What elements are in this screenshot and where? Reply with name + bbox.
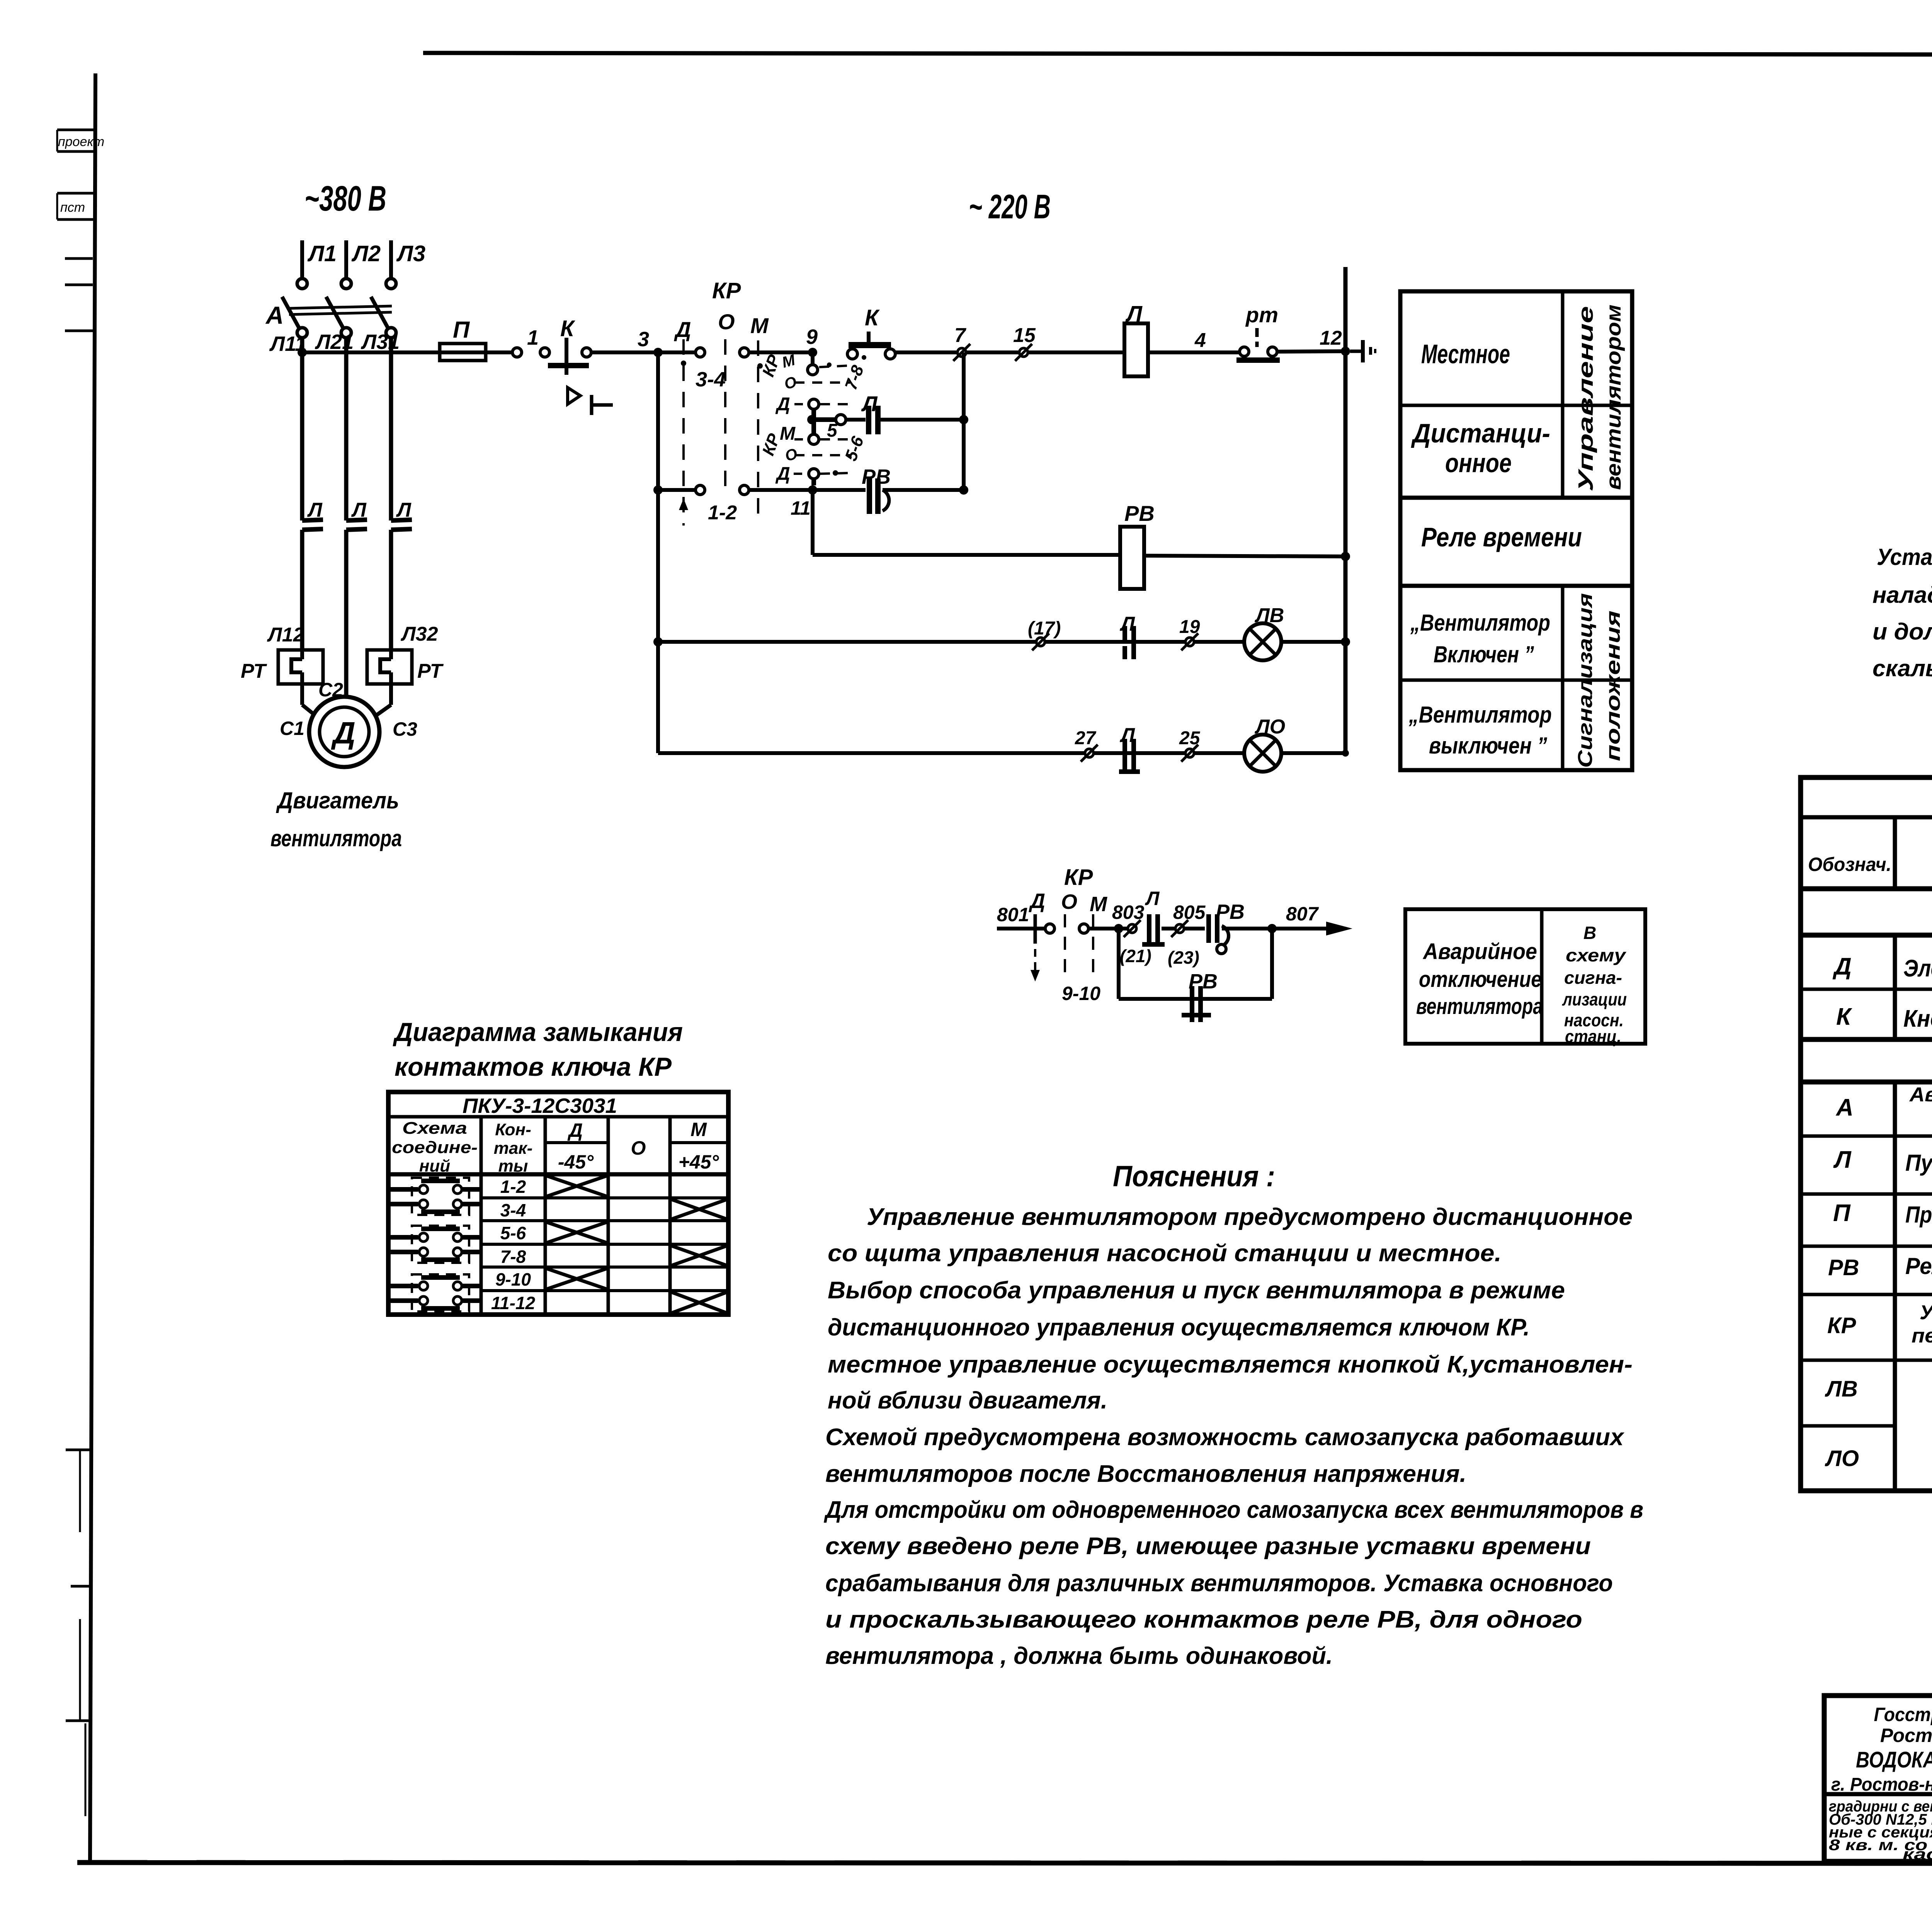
title block frame [1824, 1696, 1932, 1861]
svg-text:805: 805 [1173, 902, 1206, 923]
svg-text:С1: С1 [280, 718, 304, 739]
svg-text:К: К [1836, 1004, 1852, 1030]
svg-text:переключатель: переключатель [1912, 1325, 1932, 1347]
bypass branch with РВ NC [1117, 929, 1121, 999]
svg-text:1: 1 [527, 326, 539, 349]
svg-text:12: 12 [1320, 327, 1342, 349]
svg-text:К: К [560, 316, 575, 341]
svg-text:Л: Л [1125, 301, 1143, 327]
svg-text:А: А [1835, 1094, 1854, 1121]
svg-text:вентилятором: вентилятором [1602, 304, 1625, 490]
svg-text:М: М [1090, 893, 1107, 916]
svg-text:рт: рт [1245, 303, 1278, 327]
svg-text:Электродвигатель: Электродвигатель [1903, 955, 1932, 982]
svg-text:Ростовский: Ростовский [1880, 1725, 1932, 1746]
KP contact 1-2 branch (node 11) [658, 488, 696, 492]
svg-text:Двигатель: Двигатель [276, 788, 399, 813]
contact 3-4 gap circles [696, 348, 705, 357]
svg-text:отключение: отключение [1419, 967, 1542, 992]
svg-text:5-6: 5-6 [500, 1223, 526, 1243]
svg-text:3-4: 3-4 [500, 1200, 526, 1220]
svg-text:Управление вентилятором: Управление вентилятором предусмотрено ди… [867, 1204, 1633, 1230]
svg-text:выключен ”: выключен ” [1429, 733, 1547, 759]
svg-text:9: 9 [806, 325, 818, 349]
equipment list table [1801, 777, 1932, 1491]
svg-text:вентилятора , должна быть: вентилятора , должна быть одинаковой. [825, 1643, 1333, 1669]
svg-text:Кнопка управления: Кнопка управления [1903, 1005, 1932, 1032]
time relay coil РВ row [811, 490, 815, 555]
phase terminal Л1 [300, 240, 304, 278]
svg-text:Реле времени: Реле времени [1421, 522, 1582, 552]
svg-text:Автоматический: Автоматический [1909, 1084, 1932, 1106]
KP table X marks [547, 1176, 607, 1196]
svg-text:Д: Д [1832, 953, 1852, 980]
contactor coil Л [1124, 323, 1148, 376]
svg-text:вентилятора: вентилятора [1416, 994, 1543, 1019]
svg-text:~ 220 В: ~ 220 В [969, 187, 1051, 226]
KP contact 9-10 [1034, 914, 1037, 944]
wire marker 803 [1128, 924, 1136, 933]
svg-text:~380 В: ~380 В [304, 179, 386, 218]
svg-text:Аварийное: Аварийное [1422, 939, 1537, 964]
vertical wire from marker7 down [962, 352, 966, 490]
svg-text:контактов ключа КР: контактов ключа КР [395, 1052, 672, 1082]
svg-text:онное: онное [1445, 448, 1512, 478]
border frame left [90, 73, 95, 1863]
KP diagram table [388, 1092, 728, 1315]
svg-text:Л: Л [1833, 1146, 1852, 1173]
border frame top [423, 53, 1932, 55]
svg-text:соедине-: соедине- [392, 1138, 478, 1157]
svg-text:Д: Д [567, 1119, 583, 1141]
svg-text:„Вентилятор: „Вентилятор [1410, 610, 1550, 636]
svg-text:Дистанци-: Дистанци- [1411, 418, 1550, 448]
svg-text:7: 7 [954, 324, 966, 347]
svg-text:3: 3 [638, 328, 649, 351]
wire marker 15 [1019, 348, 1028, 357]
svg-text:В: В [1583, 923, 1596, 943]
svg-text:РТ: РТ [241, 660, 267, 682]
stop button К local [565, 338, 568, 375]
svg-text:7-8: 7-8 [500, 1247, 526, 1267]
svg-text:9-10: 9-10 [1062, 983, 1100, 1004]
phase terminal Л2 [344, 240, 348, 278]
svg-text:Уставка реле времени „1÷2-: Уставка реле времени „1÷2-РВ” уточняется… [1877, 544, 1932, 570]
svg-text:ты: ты [498, 1157, 528, 1175]
svg-text:9-10: 9-10 [495, 1269, 531, 1289]
svg-text:Л2: Л2 [351, 241, 381, 266]
KP table connection schemas [412, 1178, 469, 1215]
svg-text:19: 19 [1179, 617, 1200, 637]
svg-text:11: 11 [791, 497, 811, 519]
svg-text:Л32: Л32 [400, 623, 438, 645]
svg-text:проект: проект [58, 134, 104, 149]
svg-text:ЛО: ЛО [1254, 716, 1285, 738]
svg-text:О: О [718, 310, 735, 334]
svg-text:РТ: РТ [417, 660, 444, 682]
svg-text:Местное: Местное [1421, 339, 1510, 369]
svg-text:ЛВ: ЛВ [1254, 604, 1284, 627]
svg-text:Диаграмма замыкания: Диаграмма замыкания [393, 1017, 683, 1047]
node 3 [653, 348, 663, 357]
left margin ticks [65, 257, 93, 260]
motor Д [309, 697, 379, 767]
svg-text:11-12: 11-12 [491, 1293, 536, 1313]
svg-text:срабатывания для различных в: срабатывания для различных вентиляторов.… [825, 1570, 1613, 1597]
svg-text:Обознач.: Обознач. [1808, 854, 1891, 875]
svg-text:схему: схему [1566, 945, 1627, 965]
svg-text:РВ: РВ [1828, 1255, 1859, 1280]
svg-text:Включен ”: Включен ” [1434, 641, 1534, 667]
svg-text:ЛО: ЛО [1825, 1446, 1859, 1471]
svg-text:4: 4 [1194, 329, 1206, 352]
self-return symbol [568, 388, 580, 404]
svg-text:дистанционного управления ос: дистанционного управления осуществляется… [828, 1314, 1530, 1341]
contact Л NC in 801 row [1147, 914, 1151, 943]
wire marker 12 [1277, 351, 1345, 352]
phase drop wires with contactor main contacts Л [300, 338, 304, 520]
svg-text:(17): (17) [1028, 618, 1061, 639]
svg-text:М: М [690, 1119, 707, 1140]
svg-text:ПКУ-3-12С3031: ПКУ-3-12С3031 [463, 1094, 617, 1118]
wire to coil Л [895, 350, 1124, 354]
signal destination box [1405, 909, 1645, 1044]
svg-text:касом: касом [1903, 1846, 1932, 1863]
wire to node 3 [582, 348, 591, 357]
svg-text:местное управление осуществл: местное управление осуществляется кнопко… [828, 1351, 1633, 1378]
svg-text:К: К [865, 305, 880, 330]
start button К remote [867, 332, 871, 344]
svg-text:станц.: станц. [1565, 1026, 1621, 1046]
svg-text:Л12: Л12 [267, 624, 304, 646]
svg-text:г. Ростов-на-Дону: г. Ростов-на-Дону [1831, 1774, 1932, 1795]
svg-text:Л3: Л3 [396, 241, 425, 266]
svg-text:Сигнализация: Сигнализация [1574, 593, 1597, 768]
svg-text:С3: С3 [393, 718, 417, 740]
svg-text:так-: так- [494, 1139, 533, 1158]
svg-text:15: 15 [1013, 324, 1036, 347]
fuse П [440, 344, 486, 361]
svg-text:ЛВ: ЛВ [1825, 1376, 1858, 1402]
svg-text:5: 5 [827, 420, 838, 441]
svg-text:Универсальный: Универсальный [1920, 1301, 1932, 1324]
svg-text:ний: ний [419, 1157, 450, 1175]
svg-text:сигна-: сигна- [1564, 968, 1622, 988]
svg-text:О: О [1061, 890, 1077, 913]
svg-text:РВ: РВ [1216, 900, 1245, 924]
svg-text:А: А [265, 301, 284, 329]
svg-text:(23): (23) [1168, 947, 1199, 968]
lamp row ЛВ (fan on) [658, 640, 1244, 644]
KP contact 7-8 branch [811, 352, 815, 365]
circuit breaker A [282, 297, 301, 331]
svg-text:Схемой предусмотрена возможн: Схемой предусмотрена возможность самозап… [825, 1424, 1625, 1451]
svg-text:Схема: Схема [402, 1119, 467, 1138]
svg-text:и проскальзывающего конта: и проскальзывающего контактов реле РВ, д… [825, 1606, 1582, 1633]
svg-text:КР: КР [712, 278, 741, 303]
svg-text:наладке в зависимости от вр: наладке в зависимости от времени запуска… [1872, 582, 1932, 608]
svg-text:лизации: лизации [1562, 989, 1627, 1009]
left margin stamp boxes [57, 129, 94, 131]
svg-text:Пускатель магнитный: Пускатель магнитный [1905, 1150, 1932, 1176]
svg-text:ВОДОКАНАЛПРОЕКТ: ВОДОКАНАЛПРОЕКТ [1856, 1747, 1932, 1772]
svg-text:Кон-: Кон- [495, 1120, 531, 1139]
left drop wire from node 3 [656, 352, 660, 753]
svg-text:1-2: 1-2 [500, 1177, 526, 1197]
svg-text:М: М [750, 313, 769, 338]
contact gap 1 [512, 348, 522, 357]
svg-text:О: О [631, 1137, 646, 1159]
svg-text:со щита управления насосной: со щита управления насосной станции и ме… [828, 1240, 1502, 1267]
svg-text:Л31: Л31 [361, 330, 400, 354]
svg-text:Д: Д [775, 394, 790, 415]
svg-text:3-4: 3-4 [696, 368, 726, 391]
svg-text:Д: Д [331, 716, 355, 750]
svg-text:„Вентилятор: „Вентилятор [1408, 702, 1552, 728]
function legend table [1400, 291, 1632, 770]
svg-text:и должны быть одинаковой: и должны быть одинаковой для основного и… [1872, 619, 1932, 645]
wire marker 805 [1175, 924, 1184, 933]
svg-text:+45°: +45° [679, 1151, 719, 1173]
svg-text:Управление: Управление [1574, 306, 1597, 492]
chassis symbol [1350, 350, 1362, 353]
svg-text:положения: положения [1602, 611, 1624, 761]
svg-text:вентиляторов после Восстано: вентиляторов после Восстановления напряж… [825, 1461, 1466, 1487]
svg-text:пст: пст [60, 200, 85, 215]
svg-text:П: П [453, 317, 470, 343]
svg-text:Госстрой СССР: Госстрой СССР [1874, 1704, 1932, 1725]
svg-text:схему введено реле РВ, име: схему введено реле РВ, имеющее разные ус… [825, 1533, 1591, 1560]
wires into motor [300, 684, 304, 705]
svg-text:Предохранитель: Предохранитель [1905, 1202, 1932, 1228]
svg-text:-45°: -45° [558, 1151, 594, 1173]
svg-text:П: П [1833, 1200, 1851, 1226]
svg-text:Д: Д [674, 317, 691, 342]
border frame bottom [77, 1863, 1932, 1864]
svg-text:27: 27 [1075, 728, 1097, 748]
wire node3 to node9 [749, 350, 813, 354]
svg-text:КР: КР [1064, 865, 1093, 890]
wire marker 7 [957, 348, 966, 357]
svg-text:Д: Д [775, 464, 790, 484]
svg-text:801: 801 [997, 904, 1029, 925]
node 9 [808, 348, 817, 357]
svg-text:Выбор способа управления и: Выбор способа управления и пуск вентилят… [828, 1277, 1565, 1304]
svg-text:РВ: РВ [1124, 501, 1155, 526]
svg-text:Пояснения :: Пояснения : [1113, 1160, 1275, 1193]
svg-text:807: 807 [1286, 903, 1319, 925]
svg-text:скальзывающего контактов.: скальзывающего контактов. [1872, 655, 1932, 681]
control bus wire 380V row [302, 350, 517, 354]
right vertical bus [1344, 267, 1348, 753]
svg-text:Для отстройки от одновременно: Для отстройки от одновременного самозапу… [823, 1497, 1643, 1523]
svg-text:25: 25 [1179, 728, 1201, 748]
svg-text:С2: С2 [318, 679, 343, 701]
svg-text:Л: Л [1145, 888, 1160, 909]
wire coil to PT contact [1148, 350, 1240, 354]
phase terminal Л3 [389, 240, 393, 278]
svg-text:ной вблизи двигателя.: ной вблизи двигателя. [828, 1387, 1107, 1414]
svg-text:Л1: Л1 [307, 241, 337, 266]
svg-text:(21): (21) [1120, 946, 1151, 966]
svg-text:КР: КР [1827, 1313, 1856, 1338]
svg-text:Д: Д [1029, 890, 1045, 913]
svg-text:Реле времени: Реле времени [1905, 1253, 1932, 1279]
svg-text:вентилятора: вентилятора [270, 825, 402, 851]
svg-text:1-2: 1-2 [708, 502, 737, 524]
lamp row ЛО (fan off) [658, 751, 1244, 755]
